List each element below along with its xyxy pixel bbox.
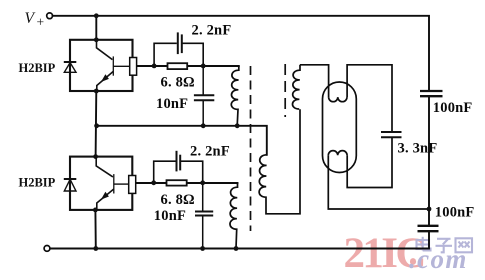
lamp bottom filament (328, 151, 347, 156)
H2BIP module box U1 (70, 40, 133, 91)
wire V+ stem to box1 (95, 16, 97, 40)
resistor in U2 right edge (129, 176, 136, 194)
watermark CJK char wang (456, 238, 473, 252)
capacitor C7 100nF bottom plates (418, 225, 439, 227)
node bottom rail L2 (234, 246, 239, 251)
wire box2 to bottom rail (94, 210, 96, 249)
capacitor C1 2.2nF branch wires (154, 43, 203, 66)
node mid rail left (94, 123, 99, 128)
diode D2 on U2 left edge (64, 179, 77, 191)
transformer primary winding L1 (231, 66, 239, 126)
svg-text:3. 3nF: 3. 3nF (398, 140, 438, 156)
node bottom rail U2 (93, 246, 98, 251)
capacitor C2 2.2nF plates (176, 151, 178, 172)
svg-text:100nF: 100nF (435, 205, 475, 221)
transistor Q2 in U2 (96, 157, 129, 210)
lamp top filament (329, 97, 347, 102)
capacitor C2 2.2nF branch wires (stage 2) (154, 161, 203, 183)
transformer primary winding L2 (230, 183, 238, 249)
node bottom rail C4 (200, 246, 205, 251)
svg-text:6. 8Ω: 6. 8Ω (161, 192, 195, 208)
node top rail / U1 collector (94, 13, 99, 18)
resistor in U1 right edge (130, 58, 137, 76)
resistor R2 6.8ohm (167, 180, 187, 185)
watermark CJK char dian (417, 237, 431, 251)
node base1 right (201, 64, 206, 69)
diode D1 on U1 left edge (64, 62, 77, 72)
watermark period after C (410, 258, 416, 265)
capacitor C1 2.2nF plates (177, 32, 179, 54)
terminal circle bottom (44, 246, 50, 252)
node U1 top (94, 37, 99, 42)
node mid rail C3 (201, 123, 206, 128)
node half-bridge midpoint (427, 207, 432, 212)
node U2 bottom (93, 208, 98, 213)
svg-text:2. 2nF: 2. 2nF (190, 144, 230, 160)
transformer secondary winding L4 (292, 65, 300, 109)
capacitor C6 100nF top plates (420, 90, 443, 92)
node U1 bottom (94, 89, 99, 94)
capacitor C5 3.3nF plates (381, 131, 402, 133)
wire lamp top right pin to C5 (347, 65, 392, 132)
svg-text:H2BIP: H2BIP (19, 61, 56, 75)
node base2 right (200, 180, 205, 185)
node mid rail L1 (235, 123, 240, 128)
svg-text:100nF: 100nF (433, 100, 473, 116)
transistor Q1 in U1 (97, 40, 130, 91)
svg-text:6. 8Ω: 6. 8Ω (161, 75, 195, 91)
svg-text:2. 2nF: 2. 2nF (192, 23, 232, 39)
wire lamp bottom left pin to right branch (328, 155, 429, 209)
wire C5 bottom to lamp bottom right pin (347, 137, 392, 187)
svg-text:H2BIP: H2BIP (19, 176, 56, 190)
node base2 left (151, 180, 156, 185)
transformer feedback winding L3 (259, 109, 300, 214)
svg-text:+: + (37, 15, 45, 30)
capacitor C4 10nF stem and plates (stage 2) (202, 183, 204, 212)
wire base2 line (136, 182, 238, 184)
resistor R1 6.8ohm (168, 63, 188, 69)
wire mid rail (97, 126, 267, 155)
transformer core dashed line right (284, 64, 286, 117)
svg-text:10nF: 10nF (154, 208, 186, 224)
svg-text:10nF: 10nF (156, 96, 188, 112)
svg-text:V: V (25, 10, 36, 27)
wire top rail (53, 16, 429, 91)
capacitor C3 10nF stem and plates (202, 66, 204, 95)
wire base1 line (136, 65, 238, 67)
wire interstage box1-box2 (95, 91, 98, 157)
node U2 top (93, 154, 98, 159)
terminal circle V+ (47, 13, 53, 19)
transformer core dashed line left (250, 66, 252, 231)
lamp envelope (323, 82, 357, 173)
wire secondary top to lamp (300, 65, 329, 97)
watermark CJK char zi (436, 239, 453, 253)
H2BIP module box U2 (70, 157, 132, 210)
wire bottom rail (50, 231, 429, 248)
wire right mid segment (428, 96, 430, 225)
node base1 left (152, 64, 157, 69)
